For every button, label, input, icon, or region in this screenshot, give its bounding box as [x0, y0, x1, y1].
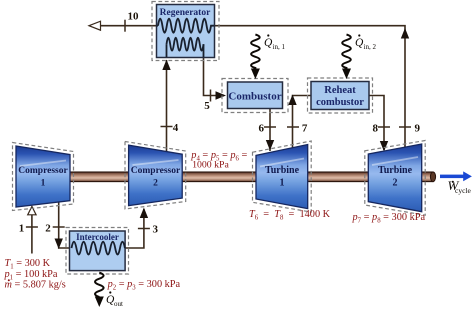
tick node 3 — [138, 228, 150, 230]
wire 3 (intercooler to compressor 2) — [125, 208, 148, 249]
svg-text:10: 10 — [128, 10, 140, 22]
tick node 10 — [124, 20, 126, 32]
node label 5 — [204, 100, 210, 112]
wire 7 (turbine 1 to reheat combustor) — [288, 95, 311, 149]
svg-text:Reheat: Reheat — [324, 85, 356, 96]
svg-text:2: 2 — [45, 223, 51, 235]
wire 9 (turbine 2 to regenerator hot inlet) — [214, 26, 409, 148]
label T1 = 300 K — [5, 258, 51, 270]
svg-text:Turbine: Turbine — [378, 165, 413, 176]
svg-text:3: 3 — [153, 224, 159, 236]
svg-text:m = 5.807 kg/s: m = 5.807 kg/s — [5, 280, 66, 291]
wire 2 (compressor 1 to intercooler) — [55, 202, 71, 249]
svg-text:1: 1 — [41, 179, 46, 189]
label p7 = p8 = 300 kPa — [352, 212, 426, 224]
intercooler — [66, 228, 129, 275]
node label 9 — [415, 123, 421, 135]
turbine 1 — [253, 141, 312, 212]
shaft — [62, 172, 436, 182]
heat input Qin2 arrow — [342, 35, 351, 80]
svg-text:2: 2 — [153, 179, 158, 189]
node label 3 — [153, 224, 159, 236]
svg-text:combustor: combustor — [316, 97, 364, 108]
svg-text:in, 1: in, 1 — [273, 43, 286, 51]
label p1 = 100 kPa — [4, 269, 58, 281]
svg-text:Compressor: Compressor — [18, 166, 68, 176]
wire 10 (regenerator exhaust, left) — [89, 21, 157, 30]
tick node 5 — [210, 90, 212, 102]
svg-text:Regenerator: Regenerator — [160, 8, 211, 18]
combustor — [222, 79, 288, 113]
node label 4 — [173, 122, 179, 134]
svg-text:7: 7 — [302, 123, 308, 135]
node label 1 — [19, 223, 25, 235]
node label 7 — [302, 123, 308, 135]
work output arrow Wcycle — [440, 171, 472, 181]
label mdot = 5.807 kg/s — [5, 279, 66, 290]
label Qin2 — [355, 34, 376, 51]
wire 6 (combustor to turbine 1) — [266, 109, 274, 151]
label p2 = p3 = 300 kPa — [107, 279, 181, 291]
intercooler coil — [72, 242, 125, 255]
label Qout — [106, 291, 123, 308]
wire 8 (reheat combustor to turbine 2) — [369, 96, 388, 152]
node label 6 — [259, 123, 265, 135]
compressor 1 — [13, 143, 74, 211]
svg-text:6: 6 — [259, 123, 265, 135]
svg-text:5: 5 — [204, 100, 210, 112]
tick node 7 — [287, 126, 299, 128]
compressor 2 — [125, 142, 186, 210]
svg-text:8: 8 — [373, 123, 379, 135]
svg-text:Combustor: Combustor — [228, 91, 281, 103]
tick node 1 — [26, 226, 38, 228]
tick node 4 — [161, 126, 173, 128]
label Wcycle — [448, 178, 472, 195]
svg-text:4: 4 — [173, 122, 179, 134]
label p4 = p5 = p6 = 1000 kPa — [190, 150, 247, 170]
regenerator cold-side coil — [167, 38, 204, 57]
svg-text:Compressor: Compressor — [131, 166, 181, 176]
svg-text:in, 2: in, 2 — [364, 43, 377, 51]
svg-text:cycle: cycle — [455, 186, 471, 195]
node label 2 — [45, 223, 51, 235]
reheat combustor — [308, 78, 373, 113]
svg-text:Intercooler: Intercooler — [76, 232, 119, 242]
svg-text:1: 1 — [19, 223, 25, 235]
svg-text:p2 = p3 = 300 kPa: p2 = p3 = 300 kPa — [107, 279, 181, 291]
wire 1 (air intake into compressor 1) — [28, 206, 36, 253]
svg-text:T6 = T8 = 1400 K: T6 = T8 = 1400 K — [249, 209, 331, 221]
svg-text:1: 1 — [280, 178, 285, 189]
wire 5 (regenerator cold outlet to combustor) — [204, 57, 227, 100]
turbine 2 — [365, 141, 425, 216]
wire 4 (compressor 2 to regenerator cold inlet) — [162, 60, 170, 152]
tick node 9 — [399, 126, 411, 128]
svg-text:1000 kPa: 1000 kPa — [192, 159, 229, 170]
svg-text:Turbine: Turbine — [265, 165, 300, 176]
label T6 = T8 = 1400 K — [249, 209, 331, 221]
node label 8 — [373, 123, 379, 135]
tick node 6 — [264, 126, 276, 128]
node label 10 — [128, 10, 140, 22]
svg-text:p7 = p8 = 300 kPa: p7 = p8 = 300 kPa — [352, 212, 426, 224]
tick node 8 — [378, 126, 390, 128]
svg-text:2: 2 — [393, 178, 398, 189]
svg-text:9: 9 — [415, 123, 421, 135]
tick node 2 — [53, 226, 65, 228]
heat input Qin1 arrow — [251, 35, 260, 80]
heat rejection Qout arrow — [95, 273, 104, 307]
regenerator hot-side coil — [157, 19, 215, 33]
regenerator — [152, 2, 219, 61]
svg-text:out: out — [114, 300, 123, 308]
label Qin1 — [264, 34, 285, 51]
